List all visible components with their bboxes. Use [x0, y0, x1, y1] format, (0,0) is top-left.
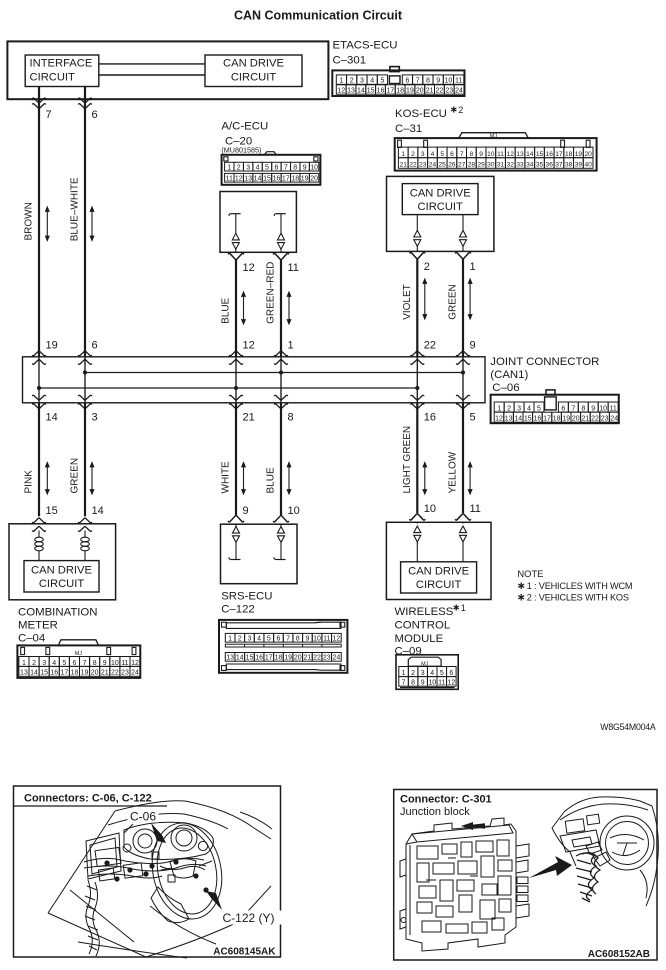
- svg-text:13: 13: [226, 655, 234, 662]
- svg-text:24: 24: [610, 416, 618, 423]
- svg-text:COMBINATION: COMBINATION: [18, 607, 98, 619]
- wire col3 WHITE (joint 21 to SRS 9): [235, 403, 237, 515]
- svg-text:19: 19: [46, 340, 58, 352]
- svg-text:2: 2: [411, 151, 415, 158]
- wire col6 GREEN (KOS 1 to joint 9): [462, 259, 464, 357]
- svg-text:2: 2: [424, 261, 430, 273]
- svg-text:17: 17: [555, 151, 563, 158]
- svg-text:6: 6: [92, 109, 98, 121]
- wire col3 BLUE (A/C 12 to joint 12): [235, 260, 237, 357]
- svg-text:2: 2: [507, 405, 511, 412]
- svg-text:BLUE: BLUE: [266, 467, 277, 493]
- svg-text:CAN DRIVE: CAN DRIVE: [31, 564, 92, 576]
- svg-text:8: 8: [288, 412, 294, 424]
- svg-text:29: 29: [477, 162, 485, 169]
- svg-text:15: 15: [40, 670, 48, 677]
- svg-text:GREEN: GREEN: [448, 284, 459, 320]
- svg-text:33: 33: [516, 162, 524, 169]
- svg-text:28: 28: [468, 162, 476, 169]
- svg-text:8: 8: [411, 680, 415, 687]
- svg-text:40: 40: [584, 162, 592, 169]
- svg-text:8: 8: [470, 151, 474, 158]
- panel2 arrow to C-301 cavity: [461, 822, 485, 830]
- svg-text:8: 8: [296, 636, 300, 643]
- svg-text:METER: METER: [18, 619, 58, 631]
- svg-text:C-06: C-06: [130, 810, 156, 824]
- svg-text:ETACS-ECU: ETACS-ECU: [333, 40, 398, 52]
- svg-text:3: 3: [247, 636, 251, 643]
- svg-text:5: 5: [265, 164, 269, 171]
- svg-text:10: 10: [310, 164, 318, 171]
- svg-text:CIRCUIT: CIRCUIT: [30, 72, 76, 84]
- SRS-ECU unit box: [221, 524, 298, 584]
- can drive circuit block (KOS): [402, 184, 478, 215]
- panel2 big pointer arrow: [529, 856, 572, 878]
- svg-text:MODULE: MODULE: [395, 633, 444, 645]
- svg-text:15: 15: [536, 151, 544, 158]
- interface circuit block: [25, 55, 99, 87]
- svg-text:23: 23: [601, 416, 609, 423]
- svg-text:C–31: C–31: [395, 123, 422, 135]
- svg-text:WIRELESS: WIRELESS: [395, 606, 454, 618]
- svg-text:2: 2: [458, 105, 463, 115]
- svg-text:5: 5: [62, 660, 66, 667]
- svg-text:13: 13: [244, 176, 252, 183]
- svg-text:C–06: C–06: [492, 382, 519, 394]
- svg-text:18: 18: [396, 88, 404, 95]
- KOS-ECU unit box: [387, 176, 494, 251]
- panel1 header underline: [14, 805, 168, 807]
- terminal fork col4 at SRS box: [273, 516, 288, 522]
- svg-text:11: 11: [323, 636, 330, 643]
- svg-text:10: 10: [487, 151, 495, 158]
- svg-text:14: 14: [92, 505, 104, 517]
- svg-text:2: 2: [238, 636, 242, 643]
- svg-text:16: 16: [424, 412, 436, 424]
- svg-text:11: 11: [470, 503, 481, 515]
- svg-text:24: 24: [131, 670, 139, 677]
- svg-text:GREEN: GREEN: [70, 458, 81, 494]
- svg-text:3: 3: [517, 405, 521, 412]
- svg-text:11: 11: [288, 262, 299, 274]
- wireless control module unit box: [386, 522, 491, 599]
- internal stub pin12 (A/C): [231, 213, 241, 215]
- internal stub pin1 (KOS): [462, 215, 464, 231]
- svg-text:2 : VEHICLES WITH KOS: 2 : VEHICLES WITH KOS: [527, 593, 629, 603]
- svg-text:4: 4: [257, 636, 261, 643]
- svg-text:16: 16: [377, 88, 385, 95]
- svg-text:10: 10: [313, 636, 321, 643]
- svg-text:7: 7: [416, 78, 420, 85]
- svg-text:CAN DRIVE: CAN DRIVE: [408, 566, 469, 578]
- wire col2 BLUE-WHITE (ETACS pin6 to joint 6): [84, 87, 86, 357]
- svg-text:9: 9: [303, 164, 307, 171]
- svg-text:16: 16: [546, 151, 554, 158]
- svg-text:9: 9: [243, 505, 249, 517]
- svg-text:Connector: C-301: Connector: C-301: [400, 794, 492, 806]
- svg-text:KOS-ECU: KOS-ECU: [395, 108, 447, 120]
- twisted pair arrow col2: [90, 207, 94, 241]
- svg-text:AC608152AB: AC608152AB: [588, 949, 650, 960]
- svg-text:6: 6: [561, 405, 565, 412]
- panel2 junction block illustration: [400, 818, 529, 951]
- svg-text:18: 18: [291, 176, 299, 183]
- svg-text:8: 8: [426, 78, 430, 85]
- connector C-20 (20 pin): [222, 155, 321, 185]
- svg-text:32: 32: [507, 162, 515, 169]
- svg-text:CIRCUIT: CIRCUIT: [416, 579, 462, 591]
- svg-text:12: 12: [332, 636, 340, 643]
- svg-text:18: 18: [71, 670, 79, 677]
- svg-text:21: 21: [101, 670, 109, 677]
- svg-text:C-122 (Y): C-122 (Y): [223, 911, 275, 925]
- svg-text:22: 22: [313, 655, 321, 662]
- svg-text:11: 11: [121, 660, 128, 667]
- wire col5 LIGHT GREEN (joint 16 to WCM 10): [416, 403, 418, 513]
- svg-text:17: 17: [282, 176, 290, 183]
- panel1 dashboard illustration: [48, 801, 272, 958]
- svg-text:11: 11: [609, 405, 616, 412]
- svg-text:13: 13: [347, 88, 355, 95]
- terminal fork col5 at KOS box: [410, 252, 425, 258]
- inset panel: connectors C-06, C-122: [14, 786, 281, 957]
- terminal fork col4 at A/C box: [273, 253, 288, 259]
- twisted pair arrows lower: [46, 463, 50, 495]
- svg-text:5: 5: [440, 670, 444, 677]
- svg-text:21: 21: [243, 412, 255, 424]
- connector crossing at ETACS box edge col2: [78, 98, 91, 103]
- svg-text:4: 4: [430, 670, 434, 677]
- internal stub pin11 (A/C): [276, 213, 286, 215]
- svg-text:23: 23: [419, 162, 427, 169]
- svg-text:21: 21: [400, 162, 408, 169]
- svg-text:23: 23: [121, 670, 129, 677]
- svg-text:18: 18: [275, 655, 283, 662]
- svg-text:1: 1: [22, 660, 26, 667]
- svg-text:7: 7: [402, 680, 406, 687]
- svg-text:16: 16: [50, 670, 58, 677]
- panel1 C-122 label and arrow: [220, 911, 284, 925]
- wires inside joint connector: [38, 357, 40, 403]
- connector C-06 (24 pin): [491, 395, 619, 424]
- svg-text:7: 7: [284, 164, 288, 171]
- svg-text:CIRCUIT: CIRCUIT: [418, 201, 464, 213]
- svg-text:18: 18: [553, 416, 561, 423]
- terminal fork col6 at KOS box: [455, 252, 470, 258]
- svg-text:15: 15: [246, 655, 254, 662]
- svg-text:24: 24: [332, 655, 340, 662]
- svg-text:12: 12: [243, 262, 255, 274]
- svg-text:4: 4: [431, 151, 435, 158]
- svg-text:8: 8: [581, 405, 585, 412]
- svg-text:BROWN: BROWN: [24, 202, 35, 240]
- svg-text:NOTE: NOTE: [517, 568, 543, 579]
- svg-text:(MU801585): (MU801585): [221, 146, 261, 155]
- svg-text:12: 12: [235, 176, 243, 183]
- twisted pair arrow col3: [242, 292, 246, 324]
- svg-text:6: 6: [274, 164, 278, 171]
- svg-text:35: 35: [536, 162, 544, 169]
- svg-text:21: 21: [304, 655, 312, 662]
- svg-text:20: 20: [294, 655, 302, 662]
- svg-text:22: 22: [591, 416, 599, 423]
- svg-text:34: 34: [526, 162, 534, 169]
- svg-text:12: 12: [507, 151, 515, 158]
- junction dot col1 lower bus: [37, 386, 41, 390]
- joint connector (CAN1) box: [23, 357, 486, 403]
- svg-text:6: 6: [276, 636, 280, 643]
- svg-text:9: 9: [103, 660, 107, 667]
- ETACS-ECU unit box: [7, 41, 328, 99]
- svg-text:C–09: C–09: [395, 646, 422, 658]
- svg-text:2: 2: [350, 78, 354, 85]
- svg-text:14: 14: [254, 176, 262, 183]
- internal stub pin10 (SRS): [280, 524, 282, 527]
- svg-text:1: 1: [461, 603, 466, 613]
- wire col1 PINK (joint 14 to meter 15): [38, 403, 40, 516]
- svg-text:2: 2: [237, 164, 241, 171]
- svg-text:22: 22: [436, 88, 444, 95]
- svg-text:3: 3: [246, 164, 250, 171]
- svg-text:CIRCUIT: CIRCUIT: [39, 578, 85, 590]
- svg-text:7: 7: [83, 660, 87, 667]
- svg-text:19: 19: [406, 88, 414, 95]
- svg-text:30: 30: [487, 162, 495, 169]
- svg-text:7: 7: [46, 109, 52, 121]
- crossing chevrons at joint connector top edge: [32, 351, 45, 356]
- wire col6 YELLOW (joint 5 to WCM 11): [462, 403, 464, 513]
- combination meter unit box: [9, 524, 116, 600]
- svg-text:13: 13: [20, 670, 28, 677]
- svg-text:15: 15: [367, 88, 375, 95]
- svg-text:MJ: MJ: [490, 133, 497, 139]
- svg-text:23: 23: [445, 88, 453, 95]
- svg-text:10: 10: [428, 680, 436, 687]
- svg-text:1: 1: [497, 405, 501, 412]
- svg-text:20: 20: [584, 151, 592, 158]
- svg-text:11: 11: [497, 151, 504, 158]
- wire col2 GREEN (joint 3 to meter 14): [84, 403, 86, 516]
- svg-text:17: 17: [265, 655, 273, 662]
- svg-text:9: 9: [470, 340, 476, 352]
- svg-text:16: 16: [534, 416, 542, 423]
- can drive circuit block (ETACS): [205, 55, 302, 87]
- svg-text:3: 3: [92, 412, 98, 424]
- svg-text:3: 3: [421, 670, 425, 677]
- svg-text:4: 4: [527, 405, 531, 412]
- svg-text:5: 5: [470, 412, 476, 424]
- svg-text:16: 16: [273, 176, 281, 183]
- svg-text:11: 11: [455, 78, 462, 85]
- svg-text:6: 6: [92, 340, 98, 352]
- internal stub pin10 (WCM): [416, 522, 418, 523]
- svg-text:9: 9: [479, 151, 483, 158]
- can drive circuit block (meter): [24, 561, 99, 592]
- svg-text:9: 9: [305, 636, 309, 643]
- wire col4 BLUE (joint 8 to SRS 10): [280, 403, 282, 515]
- twisted pair arrow col5: [423, 279, 427, 319]
- terminal fork col3 at A/C box: [228, 253, 243, 259]
- svg-text:1: 1: [228, 636, 232, 643]
- crossing chevrons at meter top edge col2: [78, 518, 91, 523]
- svg-text:18: 18: [565, 151, 573, 158]
- svg-text:1: 1: [402, 670, 406, 677]
- svg-text:8: 8: [293, 164, 297, 171]
- svg-text:22: 22: [409, 162, 417, 169]
- svg-text:3: 3: [360, 78, 364, 85]
- svg-text:10: 10: [599, 405, 607, 412]
- svg-text:19: 19: [562, 416, 570, 423]
- svg-text:20: 20: [416, 88, 424, 95]
- svg-text:WHITE: WHITE: [221, 461, 232, 494]
- internal coil col1 (meter): [38, 531, 40, 538]
- twisted pair arrow col1: [46, 207, 50, 241]
- svg-text:21: 21: [582, 416, 590, 423]
- connector C-04 (24 pin): [17, 645, 140, 678]
- svg-text:C–122: C–122: [221, 603, 255, 615]
- svg-text:10: 10: [111, 660, 119, 667]
- svg-text:7: 7: [571, 405, 575, 412]
- junction dot col6 upper bus: [461, 370, 465, 374]
- internal stub pin11 (WCM): [462, 522, 464, 523]
- svg-text:19: 19: [284, 655, 292, 662]
- internal stub pin2 (KOS): [416, 215, 418, 231]
- svg-text:PINK: PINK: [24, 470, 35, 494]
- svg-text:12: 12: [243, 340, 255, 352]
- svg-text:4: 4: [256, 164, 260, 171]
- svg-text:24: 24: [429, 162, 437, 169]
- svg-text:C–301: C–301: [333, 54, 367, 66]
- svg-text:1: 1: [339, 78, 343, 85]
- svg-text:9: 9: [436, 78, 440, 85]
- svg-text:CAN DRIVE: CAN DRIVE: [410, 187, 471, 199]
- internal stub pin9 (SRS): [235, 524, 237, 527]
- svg-text:1: 1: [470, 261, 476, 273]
- svg-text:4: 4: [52, 660, 56, 667]
- wire col5 VIOLET (KOS 2 to joint 22): [416, 259, 418, 357]
- svg-text:7: 7: [286, 636, 290, 643]
- svg-text:19: 19: [575, 151, 583, 158]
- connector C-31 (40 pin): [395, 138, 597, 171]
- svg-text:1 : VEHICLES WITH WCM: 1 : VEHICLES WITH WCM: [527, 581, 633, 591]
- svg-text:Connectors: C-06, C-122: Connectors: C-06, C-122: [24, 793, 152, 805]
- svg-text:14: 14: [236, 655, 244, 662]
- CAN bus line upper (inside joint connector): [85, 372, 463, 374]
- svg-text:13: 13: [505, 416, 513, 423]
- svg-text:20: 20: [310, 176, 318, 183]
- svg-text:16: 16: [255, 655, 263, 662]
- svg-text:9: 9: [421, 680, 425, 687]
- svg-text:14: 14: [526, 151, 534, 158]
- svg-text:CONTROL: CONTROL: [395, 619, 451, 631]
- svg-text:23: 23: [323, 655, 331, 662]
- svg-text:CAN Communication Circuit: CAN Communication Circuit: [234, 9, 403, 23]
- connector C-122 (24 pin): [219, 620, 347, 673]
- svg-text:11: 11: [438, 680, 445, 687]
- svg-text:GREEN–RED: GREEN–RED: [266, 262, 277, 324]
- svg-text:15: 15: [524, 416, 532, 423]
- junction dot col3 lower bus: [234, 386, 238, 390]
- svg-text:27: 27: [458, 162, 466, 169]
- svg-text:W8G54M004A: W8G54M004A: [600, 722, 656, 732]
- svg-text:15: 15: [46, 505, 58, 517]
- svg-text:20: 20: [572, 416, 580, 423]
- terminal fork col6 at WCM box: [455, 514, 470, 520]
- wire: interface to can drive (upper): [99, 63, 205, 65]
- svg-text:SRS-ECU: SRS-ECU: [221, 591, 272, 603]
- svg-text:5: 5: [440, 151, 444, 158]
- twisted pair arrow col6: [468, 279, 472, 319]
- svg-text:37: 37: [555, 162, 563, 169]
- svg-text:19: 19: [301, 176, 309, 183]
- panel2 mini dashboard illustration: [552, 797, 658, 906]
- connector C-301 (24 pin): [332, 70, 464, 96]
- svg-text:12: 12: [131, 660, 139, 667]
- svg-text:10: 10: [424, 503, 436, 515]
- svg-text:14: 14: [46, 412, 58, 424]
- svg-text:7: 7: [460, 151, 464, 158]
- svg-text:14: 14: [357, 88, 365, 95]
- junction dot col4 upper bus: [279, 370, 283, 374]
- svg-text:11: 11: [226, 176, 233, 183]
- svg-text:39: 39: [575, 162, 583, 169]
- svg-text:5: 5: [537, 405, 541, 412]
- svg-text:14: 14: [514, 416, 522, 423]
- svg-text:17: 17: [386, 88, 394, 95]
- svg-text:13: 13: [516, 151, 524, 158]
- wire: interface to can drive (lower): [99, 74, 205, 76]
- wire col4 GREEN-RED (A/C 11 to joint 1): [280, 260, 282, 357]
- svg-text:17: 17: [60, 670, 68, 677]
- svg-text:A/C-ECU: A/C-ECU: [221, 120, 268, 132]
- svg-text:19: 19: [81, 670, 89, 677]
- svg-text:VIOLET: VIOLET: [402, 284, 413, 320]
- svg-text:LIGHT GREEN: LIGHT GREEN: [402, 426, 413, 494]
- svg-text:14: 14: [30, 670, 38, 677]
- svg-text:5: 5: [267, 636, 271, 643]
- svg-text:15: 15: [263, 176, 271, 183]
- svg-text:24: 24: [455, 88, 463, 95]
- connector C-09 (12 pin): [396, 655, 458, 690]
- svg-text:3: 3: [421, 151, 425, 158]
- svg-text:AC608145AK: AC608145AK: [213, 947, 276, 958]
- svg-text:21: 21: [426, 88, 434, 95]
- svg-text:1: 1: [401, 151, 405, 158]
- can drive circuit block (WCM): [401, 562, 477, 593]
- svg-text:6: 6: [72, 660, 76, 667]
- svg-text:1: 1: [227, 164, 231, 171]
- svg-text:C–04: C–04: [18, 633, 45, 645]
- svg-text:CAN DRIVE: CAN DRIVE: [223, 58, 284, 70]
- svg-text:36: 36: [546, 162, 554, 169]
- junction dot col2 upper bus: [83, 370, 87, 374]
- svg-text:1: 1: [288, 340, 294, 352]
- terminal fork col3 at SRS box: [228, 516, 243, 522]
- svg-text:2: 2: [32, 660, 36, 667]
- internal coil col2 (meter): [84, 531, 86, 538]
- svg-text:YELLOW: YELLOW: [448, 451, 459, 493]
- svg-text:BLUE: BLUE: [221, 297, 232, 323]
- svg-text:6: 6: [450, 151, 454, 158]
- svg-text:17: 17: [543, 416, 551, 423]
- svg-text:25: 25: [439, 162, 447, 169]
- wire col1 BROWN (ETACS pin7 to joint 19): [38, 87, 40, 357]
- svg-text:6: 6: [405, 78, 409, 85]
- svg-text:JOINT CONNECTOR: JOINT CONNECTOR: [490, 356, 599, 368]
- svg-text:10: 10: [288, 505, 300, 517]
- A/C-ECU unit box: [220, 192, 296, 253]
- svg-text:4: 4: [370, 78, 374, 85]
